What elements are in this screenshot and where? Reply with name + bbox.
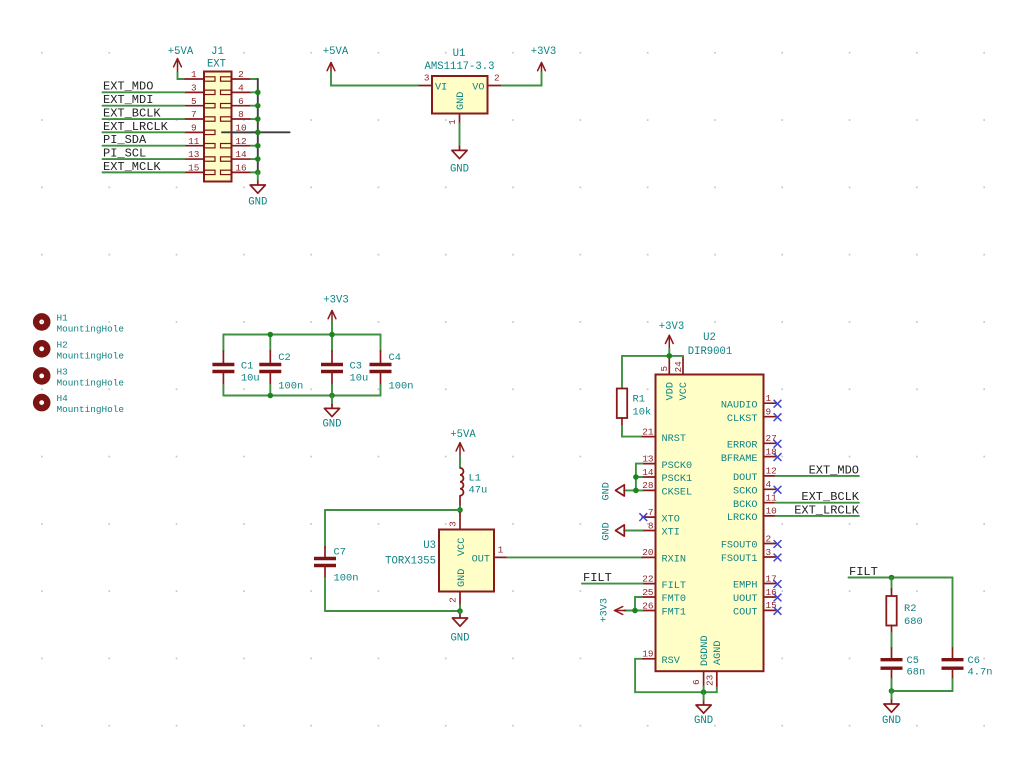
junction bbox=[255, 143, 261, 149]
no-connect U2 pin 7 XTO bbox=[639, 513, 647, 521]
power +3V3 (U1) bbox=[531, 46, 556, 72]
svg-text:RXIN: RXIN bbox=[662, 555, 686, 566]
U2 pin 23 AGND bbox=[704, 641, 724, 687]
J1 pin 16 bbox=[221, 163, 252, 175]
no-connect U2 pin 15 bbox=[774, 607, 782, 615]
mounting hole H4 bbox=[36, 393, 124, 415]
svg-text:13: 13 bbox=[188, 149, 200, 160]
wire LRCKO to EXT_LRCLK bbox=[776, 515, 859, 517]
svg-text:6: 6 bbox=[691, 679, 702, 685]
U1 pin 1 GND bbox=[447, 92, 467, 125]
wire EXT_MDO to J1 bbox=[103, 91, 185, 93]
label J1 EXT bbox=[207, 46, 226, 71]
svg-text:1: 1 bbox=[191, 69, 197, 80]
svg-text:4.7n: 4.7n bbox=[968, 667, 993, 679]
label U3 TORX1355 bbox=[385, 540, 436, 568]
svg-text:PI_SDA: PI_SDA bbox=[103, 133, 147, 147]
wire FILT net (R2/C6) bbox=[849, 577, 953, 579]
svg-text:CKSEL: CKSEL bbox=[662, 488, 693, 499]
svg-text:GND: GND bbox=[456, 92, 467, 110]
junction bbox=[255, 103, 261, 109]
J1 pin 1 bbox=[184, 69, 215, 81]
wire EXT_LRCLK to J1 bbox=[103, 131, 185, 133]
svg-text:H1: H1 bbox=[57, 312, 69, 323]
svg-text:28: 28 bbox=[642, 480, 654, 491]
svg-text:TORX1355: TORX1355 bbox=[385, 556, 436, 568]
IC U2 DIR9001 bbox=[656, 375, 764, 672]
svg-text:GND: GND bbox=[450, 164, 469, 176]
wire EXT_MCLK to J1 bbox=[103, 171, 185, 173]
wire +5VA to J1 pin 1 bbox=[178, 72, 185, 79]
svg-text:47u: 47u bbox=[469, 485, 488, 497]
U2 pin 7 XTO bbox=[642, 507, 680, 525]
svg-text:23: 23 bbox=[704, 674, 715, 686]
svg-text:U2: U2 bbox=[703, 332, 716, 344]
svg-text:L1: L1 bbox=[469, 473, 481, 485]
J1 pin 3 bbox=[184, 83, 215, 95]
wire L1 to U3 VCC bbox=[459, 507, 461, 514]
svg-text:FMT0: FMT0 bbox=[662, 594, 686, 605]
svg-text:VO: VO bbox=[472, 83, 484, 94]
wire RSV to ground net bbox=[635, 659, 717, 692]
svg-text:21: 21 bbox=[642, 426, 654, 437]
ground GND (XTI) bbox=[602, 522, 625, 540]
svg-text:27: 27 bbox=[766, 433, 777, 444]
svg-text:14: 14 bbox=[235, 149, 247, 160]
svg-text:+5VA: +5VA bbox=[323, 46, 349, 58]
svg-text:100n: 100n bbox=[334, 573, 359, 585]
ground GND (J1) bbox=[248, 181, 267, 209]
svg-text:100n: 100n bbox=[389, 381, 414, 393]
capacitor C3 bbox=[321, 335, 368, 396]
no-connect U2 pin 3 bbox=[774, 554, 782, 562]
wire FMT0/FMT1 to +3V3 bbox=[624, 597, 642, 611]
svg-text:+3V3: +3V3 bbox=[323, 295, 348, 307]
svg-text:2: 2 bbox=[238, 69, 244, 80]
svg-text:BFRAME: BFRAME bbox=[721, 454, 758, 465]
svg-text:5: 5 bbox=[191, 96, 197, 107]
svg-text:EXT_MCLK: EXT_MCLK bbox=[103, 160, 161, 174]
no-connect U2 pin 18 bbox=[774, 453, 782, 461]
svg-text:GND: GND bbox=[450, 633, 469, 645]
svg-text:2: 2 bbox=[766, 533, 772, 544]
net label FILT (RC) bbox=[849, 565, 878, 579]
J1 pin 2 bbox=[221, 69, 252, 81]
svg-text:3: 3 bbox=[424, 73, 430, 84]
svg-text:7: 7 bbox=[191, 109, 197, 120]
mounting hole H1 bbox=[36, 312, 124, 334]
wire U2 ground down bbox=[703, 692, 705, 700]
resistor R2 680 bbox=[886, 578, 922, 634]
mounting hole H3 bbox=[36, 366, 124, 388]
svg-text:11: 11 bbox=[188, 136, 200, 147]
svg-text:VCC: VCC bbox=[679, 382, 690, 400]
svg-text:+3V3: +3V3 bbox=[659, 321, 684, 333]
J1 pin 12 bbox=[221, 136, 252, 148]
U2 pin 13 PSCK0 bbox=[642, 453, 692, 471]
U2 pin 6 DGDND bbox=[691, 635, 711, 686]
svg-text:8: 8 bbox=[648, 520, 654, 531]
svg-text:C5: C5 bbox=[907, 655, 919, 667]
U2 pin 26 FMT1 bbox=[642, 600, 686, 618]
svg-text:AGND: AGND bbox=[713, 641, 724, 665]
svg-text:FILT: FILT bbox=[849, 565, 878, 579]
svg-text:R1: R1 bbox=[633, 394, 645, 406]
no-connect U2 pin 27 bbox=[774, 440, 782, 448]
svg-text:2: 2 bbox=[448, 597, 459, 603]
svg-text:PSCK1: PSCK1 bbox=[662, 474, 693, 485]
junction bbox=[329, 332, 335, 338]
wire bus to GND (J1) bbox=[257, 172, 259, 180]
svg-text:6: 6 bbox=[238, 96, 244, 107]
junction bbox=[633, 488, 639, 494]
svg-text:24: 24 bbox=[673, 361, 684, 373]
svg-text:10u: 10u bbox=[241, 373, 260, 385]
wire FILT to U2 pin 22 bbox=[582, 583, 642, 585]
wire C7 bottom to U3 GND bbox=[325, 605, 460, 611]
svg-text:CLKST: CLKST bbox=[727, 414, 758, 425]
svg-text:+5VA: +5VA bbox=[168, 46, 194, 58]
svg-text:DGDND: DGDND bbox=[700, 635, 711, 666]
U2 pin 27 ERROR bbox=[727, 433, 777, 451]
wire FILT ground down bbox=[891, 691, 893, 700]
wire U1 GND down bbox=[459, 124, 461, 147]
wire U3 OUT to U2 RXIN bbox=[508, 556, 643, 558]
svg-text:MountingHole: MountingHole bbox=[57, 323, 125, 334]
net label EXT_LRCLK bbox=[103, 120, 169, 134]
wire EXT_MDI to J1 bbox=[103, 105, 185, 107]
svg-text:GND: GND bbox=[322, 419, 341, 431]
U2 pin 1 NAUDIO bbox=[721, 393, 776, 411]
J1 pin 14 bbox=[221, 149, 252, 161]
no-connect U2 pin 16 bbox=[774, 594, 782, 602]
wire R2 to C5 bbox=[891, 633, 893, 648]
svg-text:MountingHole: MountingHole bbox=[57, 350, 125, 361]
svg-text:1: 1 bbox=[447, 119, 458, 125]
svg-text:100n: 100n bbox=[278, 381, 303, 393]
svg-text:12: 12 bbox=[235, 136, 246, 147]
net label EXT_MDI bbox=[103, 93, 153, 107]
U2 pin 28 CKSEL bbox=[642, 480, 692, 498]
U2 pin 8 XTI bbox=[642, 520, 680, 538]
svg-text:5: 5 bbox=[659, 366, 670, 372]
U2 pin 10 LRCKO bbox=[727, 506, 777, 524]
junction bbox=[667, 353, 673, 359]
U2 pin 11 BCKO bbox=[733, 493, 777, 511]
U2 pin 18 BFRAME bbox=[721, 446, 777, 464]
capacitor C2 bbox=[259, 335, 303, 396]
svg-text:EXT_MDO: EXT_MDO bbox=[809, 463, 859, 477]
wire DOUT to EXT_MDO bbox=[776, 475, 859, 477]
U2 pin 3 FSOUT1 bbox=[721, 547, 776, 565]
capacitor C1 bbox=[212, 335, 259, 396]
junction bbox=[457, 507, 463, 513]
wire PI_SDA to J1 bbox=[103, 145, 185, 147]
svg-text:9: 9 bbox=[766, 407, 772, 418]
wire top rail (caps) bbox=[223, 334, 380, 336]
svg-text:FILT: FILT bbox=[583, 571, 612, 585]
svg-text:EXT_LRCLK: EXT_LRCLK bbox=[794, 503, 860, 517]
wire J1 right bus vertical bbox=[251, 79, 258, 172]
svg-text:EMPH: EMPH bbox=[733, 581, 757, 592]
U1 pin 3 VI bbox=[419, 73, 448, 94]
svg-text:VI: VI bbox=[435, 83, 447, 94]
svg-text:NAUDIO: NAUDIO bbox=[721, 400, 758, 411]
resistor R1 10k bbox=[617, 356, 651, 425]
svg-text:14: 14 bbox=[642, 467, 654, 478]
svg-text:+3V3: +3V3 bbox=[531, 46, 556, 58]
svg-text:3: 3 bbox=[448, 521, 459, 527]
wire +3V3 to rail bbox=[331, 322, 333, 335]
svg-text:GND: GND bbox=[248, 197, 267, 209]
regulator U1 AMS1117-3.3 bbox=[432, 76, 488, 114]
svg-text:DOUT: DOUT bbox=[733, 473, 757, 484]
net label EXT_BCLK bbox=[103, 106, 161, 120]
junction bbox=[255, 170, 261, 176]
svg-text:15: 15 bbox=[188, 163, 200, 174]
svg-text:+5VA: +5VA bbox=[450, 429, 476, 441]
J1 pin 4 bbox=[221, 83, 252, 95]
no-connect U2 pin 4 bbox=[774, 486, 782, 494]
svg-text:PI_SCL: PI_SCL bbox=[103, 146, 146, 160]
svg-text:NRST: NRST bbox=[662, 434, 686, 445]
net label EXT_BCLK (U2) bbox=[801, 490, 859, 504]
net label PI_SCL bbox=[103, 146, 146, 160]
svg-text:EXT_BCLK: EXT_BCLK bbox=[103, 106, 161, 120]
U2 pin 20 RXIN bbox=[642, 547, 686, 565]
svg-text:MountingHole: MountingHole bbox=[57, 377, 125, 388]
svg-text:FMT1: FMT1 bbox=[662, 608, 686, 619]
U2 pin 17 EMPH bbox=[733, 573, 777, 591]
wire BCKO to EXT_BCLK bbox=[776, 502, 859, 504]
svg-text:FSOUT1: FSOUT1 bbox=[721, 554, 758, 565]
svg-text:4: 4 bbox=[238, 83, 244, 94]
svg-text:GND: GND bbox=[457, 569, 468, 587]
net label EXT_MDO (U2) bbox=[809, 463, 859, 477]
junction bbox=[633, 474, 639, 480]
junction bbox=[889, 575, 895, 581]
U2 pin 19 RSV bbox=[642, 649, 680, 667]
ground GND (U3) bbox=[450, 614, 469, 645]
wire PI_SCL to J1 bbox=[103, 158, 185, 160]
U2 pin 14 PSCK1 bbox=[642, 467, 692, 485]
junction bbox=[701, 689, 707, 695]
svg-text:XTI: XTI bbox=[662, 528, 680, 539]
svg-text:OUT: OUT bbox=[472, 555, 490, 566]
svg-text:U3: U3 bbox=[423, 540, 436, 552]
U2 pin 22 FILT bbox=[642, 573, 686, 591]
svg-text:10u: 10u bbox=[350, 373, 369, 385]
svg-text:68n: 68n bbox=[907, 667, 926, 679]
svg-text:FILT: FILT bbox=[662, 581, 686, 592]
svg-text:MountingHole: MountingHole bbox=[57, 404, 125, 415]
svg-text:2: 2 bbox=[494, 73, 500, 84]
ground GND (FILT) bbox=[882, 700, 901, 728]
J1 pin 11 bbox=[184, 136, 215, 148]
junction bbox=[268, 393, 274, 399]
no-connect U2 pin 17 bbox=[774, 580, 782, 588]
svg-text:20: 20 bbox=[642, 547, 654, 558]
capacitor C7 bbox=[314, 510, 358, 611]
wire +5VA to U1 VI bbox=[331, 72, 419, 86]
U2 pin 2 FSOUT0 bbox=[721, 533, 776, 551]
svg-text:VDD: VDD bbox=[666, 382, 677, 400]
net label EXT_LRCLK (U2) bbox=[794, 503, 860, 517]
svg-text:1: 1 bbox=[766, 393, 772, 404]
svg-text:7: 7 bbox=[648, 507, 654, 518]
no-connect U2 pin 1 bbox=[774, 400, 782, 408]
wire C5/C6 bottom bbox=[892, 690, 953, 692]
capacitor C6 4.7n bbox=[942, 578, 993, 692]
power +5VA (J1) bbox=[168, 46, 194, 73]
junction bbox=[457, 608, 463, 614]
net label EXT_MDO bbox=[103, 80, 153, 94]
U3 pin 1 OUT bbox=[472, 545, 508, 566]
svg-text:R2: R2 bbox=[904, 603, 916, 615]
wire PSCK0/PSCK1/CKSEL tie bbox=[624, 464, 642, 491]
svg-text:FSOUT0: FSOUT0 bbox=[721, 541, 758, 552]
U2 pin 25 FMT0 bbox=[642, 587, 686, 605]
svg-text:C1: C1 bbox=[241, 361, 253, 373]
inductor L1 47u bbox=[460, 468, 487, 507]
wire XTI to GND bbox=[624, 530, 642, 532]
junction bbox=[329, 393, 335, 399]
svg-text:19: 19 bbox=[642, 649, 653, 660]
junction bbox=[889, 688, 895, 694]
svg-text:EXT_BCLK: EXT_BCLK bbox=[801, 490, 859, 504]
capacitor C4 bbox=[370, 335, 414, 396]
svg-text:C3: C3 bbox=[350, 361, 362, 373]
svg-text:PSCK0: PSCK0 bbox=[662, 461, 693, 472]
label U1 AMS1117-3.3 bbox=[425, 48, 495, 73]
svg-text:XTO: XTO bbox=[662, 514, 680, 525]
junction bbox=[255, 116, 261, 122]
U2 pin 4 SCKO bbox=[733, 479, 775, 497]
junction bbox=[255, 90, 261, 96]
power +3V3 (U2) bbox=[659, 321, 684, 350]
power +3V3 (FMT1) bbox=[600, 598, 626, 622]
svg-text:4: 4 bbox=[766, 479, 772, 490]
wire U1 VO to +3V3 bbox=[501, 72, 542, 86]
no-connect U2 pin 2 bbox=[774, 540, 782, 548]
svg-text:13: 13 bbox=[642, 453, 654, 464]
svg-text:1: 1 bbox=[498, 545, 504, 556]
svg-text:22: 22 bbox=[642, 573, 653, 584]
U3 pin 3 VCC bbox=[448, 513, 469, 556]
net label FILT (U2) bbox=[583, 571, 612, 585]
U2 pin 24 VCC bbox=[673, 356, 690, 400]
ground GND (U2) bbox=[694, 701, 713, 728]
wire EXT_BCLK to J1 bbox=[103, 118, 185, 120]
svg-text:COUT: COUT bbox=[733, 608, 757, 619]
U1 pin 2 VO bbox=[472, 73, 501, 94]
junction bbox=[255, 156, 261, 162]
svg-text:ERROR: ERROR bbox=[727, 441, 758, 452]
J1 pin 9 bbox=[184, 123, 215, 135]
svg-text:VCC: VCC bbox=[457, 538, 468, 556]
svg-text:GND: GND bbox=[882, 715, 901, 727]
wire +5VA to L1 bbox=[459, 457, 461, 469]
svg-text:26: 26 bbox=[642, 600, 654, 611]
ground GND (U1) bbox=[450, 146, 469, 176]
U2 pin 12 DOUT bbox=[733, 466, 777, 484]
net label EXT_MCLK bbox=[103, 160, 161, 174]
svg-text:DIR9001: DIR9001 bbox=[688, 346, 733, 358]
svg-text:C2: C2 bbox=[278, 352, 290, 364]
J1 pin 7 bbox=[184, 109, 215, 121]
J1 pin 5 bbox=[184, 96, 215, 108]
svg-text:GND: GND bbox=[602, 522, 613, 540]
power +5VA (U1) bbox=[323, 46, 349, 72]
svg-text:BCKO: BCKO bbox=[733, 500, 757, 511]
svg-text:C6: C6 bbox=[968, 655, 980, 667]
svg-text:EXT: EXT bbox=[207, 59, 226, 71]
J1 pin 8 bbox=[221, 109, 252, 121]
power +5VA (U3) bbox=[450, 429, 476, 457]
U2 pin 5 VDD bbox=[659, 356, 677, 400]
svg-text:LRCKO: LRCKO bbox=[727, 513, 758, 524]
svg-text:25: 25 bbox=[642, 587, 654, 598]
U2 pin 9 CLKST bbox=[727, 407, 776, 425]
J1 pin 6 bbox=[221, 96, 252, 108]
J1 pin 15 bbox=[184, 163, 215, 175]
svg-text:H3: H3 bbox=[57, 366, 69, 377]
svg-text:3: 3 bbox=[191, 83, 197, 94]
wire +3V3 to U2 VDD/VCC bbox=[622, 349, 683, 356]
wire C7 top to L1 junction bbox=[325, 509, 460, 511]
svg-text:16: 16 bbox=[235, 163, 247, 174]
no-connect U2 pin 9 bbox=[774, 413, 782, 421]
wire U3 GND down bbox=[459, 611, 461, 614]
junction bbox=[268, 332, 274, 338]
svg-text:+3V3: +3V3 bbox=[600, 598, 611, 622]
connector J1 bbox=[204, 72, 232, 182]
svg-text:3: 3 bbox=[766, 547, 772, 558]
svg-text:9: 9 bbox=[191, 123, 197, 134]
svg-text:SCKO: SCKO bbox=[733, 487, 757, 498]
wire rail to GND (caps) bbox=[331, 396, 333, 404]
ground GND (CKSEL) bbox=[602, 482, 625, 500]
svg-text:EXT_MDI: EXT_MDI bbox=[103, 93, 153, 107]
mounting hole H2 bbox=[36, 339, 124, 361]
svg-text:17: 17 bbox=[766, 573, 777, 584]
svg-text:AMS1117-3.3: AMS1117-3.3 bbox=[425, 61, 495, 73]
svg-text:UOUT: UOUT bbox=[733, 594, 757, 605]
svg-text:H4: H4 bbox=[57, 393, 69, 404]
capacitor C5 68n bbox=[881, 648, 926, 691]
J1 pin 10 bbox=[232, 123, 252, 134]
svg-text:J1: J1 bbox=[211, 46, 224, 58]
svg-text:C4: C4 bbox=[389, 352, 401, 364]
wire bottom rail (caps) bbox=[223, 395, 380, 397]
svg-text:680: 680 bbox=[904, 616, 923, 628]
ground GND (caps) bbox=[322, 404, 341, 431]
U2 pin 21 NRST bbox=[642, 426, 686, 444]
wire J1 pin 10 stub (dark) bbox=[222, 131, 290, 133]
wire R1 to U2 NRST bbox=[622, 425, 642, 437]
svg-text:H2: H2 bbox=[57, 339, 68, 350]
svg-text:C7: C7 bbox=[334, 547, 346, 559]
svg-text:10k: 10k bbox=[633, 407, 652, 419]
svg-text:EXT_MDO: EXT_MDO bbox=[103, 80, 153, 94]
U2 pin 16 UOUT bbox=[733, 587, 777, 605]
net label PI_SDA bbox=[103, 133, 147, 147]
svg-text:GND: GND bbox=[602, 482, 613, 500]
J1 pin 13 bbox=[184, 149, 215, 161]
svg-text:EXT_LRCLK: EXT_LRCLK bbox=[103, 120, 169, 134]
svg-text:RSV: RSV bbox=[662, 656, 681, 667]
svg-text:U1: U1 bbox=[453, 48, 466, 60]
